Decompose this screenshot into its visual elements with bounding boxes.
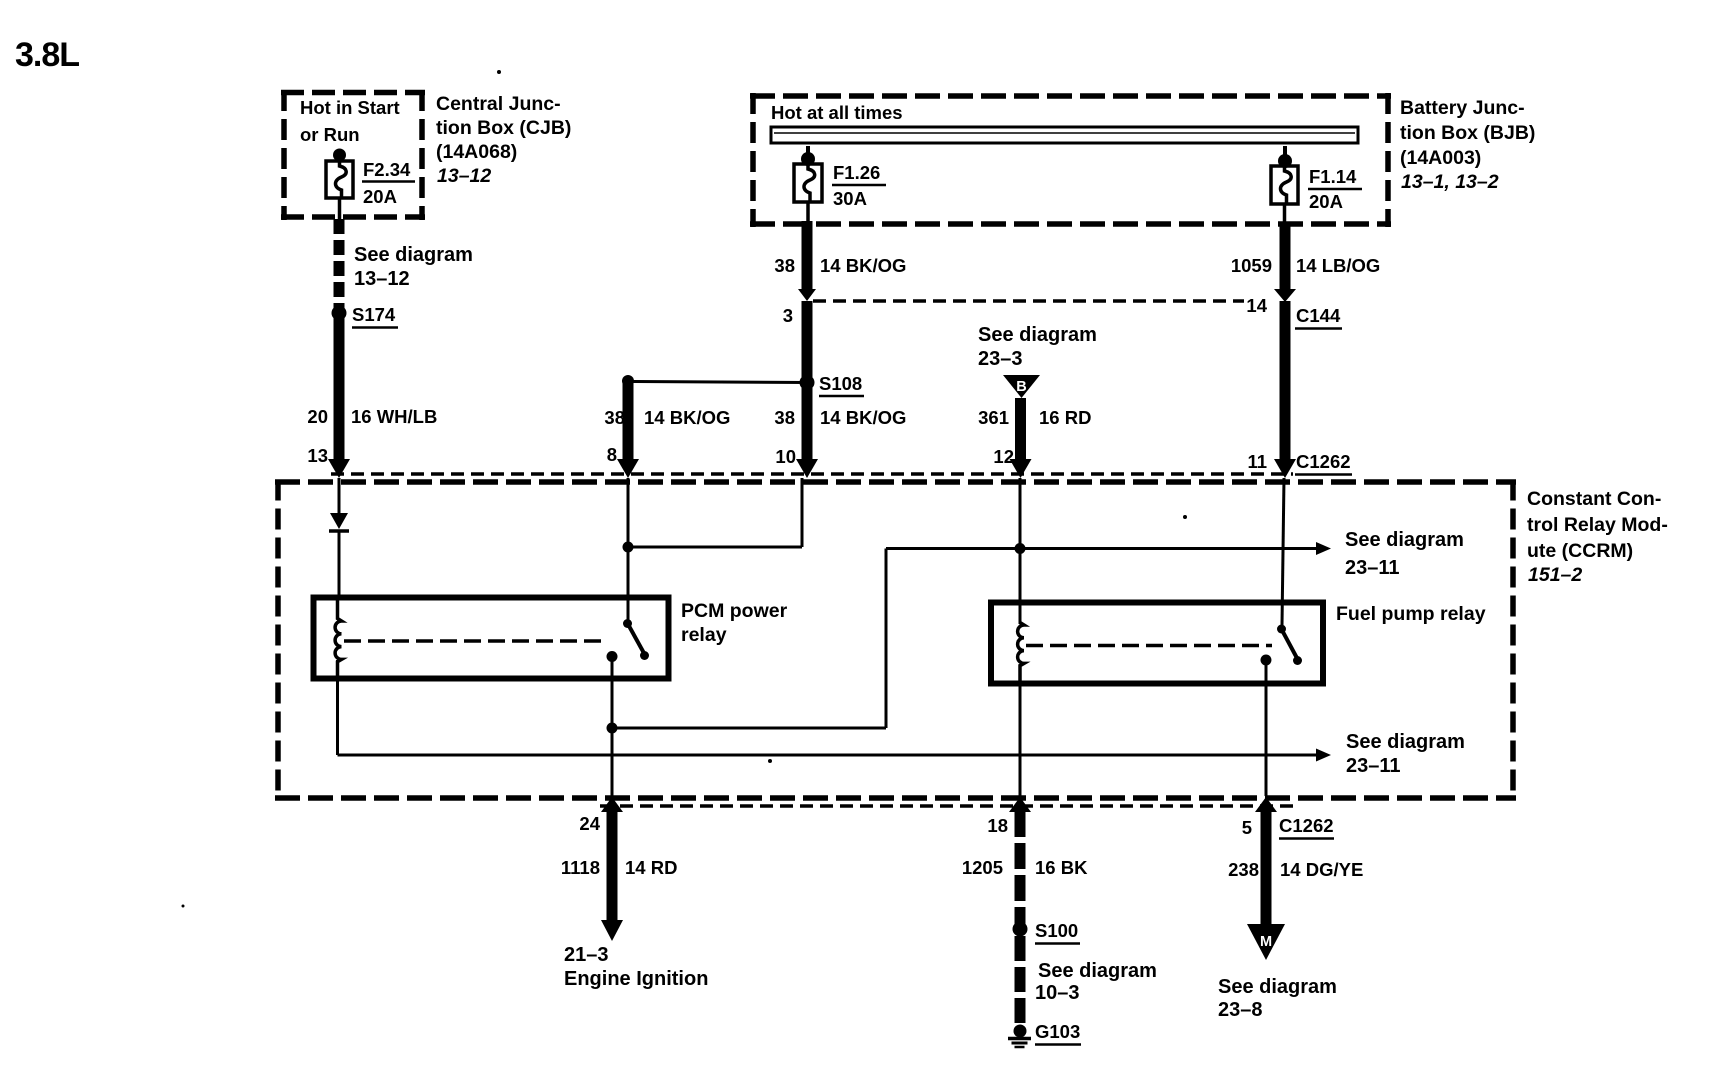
- svg-text:238: 238: [1228, 859, 1259, 880]
- svg-text:14 BK/OG: 14 BK/OG: [820, 255, 906, 276]
- svg-text:23–11: 23–11: [1346, 755, 1401, 777]
- svg-text:23–8: 23–8: [1218, 999, 1263, 1021]
- wire: 238 14 DG/YE (thick): [1261, 811, 1272, 924]
- fuse F1.14 20A: [1271, 146, 1298, 222]
- svg-text:11: 11: [1247, 451, 1267, 472]
- svg-text:13–12: 13–12: [354, 268, 410, 290]
- PCM relay internal dashed link: [344, 639, 605, 643]
- svg-text:C1262: C1262: [1296, 451, 1351, 472]
- svg-text:Battery Junc-: Battery Junc-: [1400, 97, 1525, 119]
- svg-text:1118: 1118: [561, 857, 600, 878]
- connector M (see diagram 23-8): [1247, 924, 1285, 960]
- wire: PCM coil ground + see diagram 23-11 arrow (lower): [336, 660, 339, 755]
- wire: pin 8 into CCRM to switch: [627, 478, 630, 620]
- svg-text:23–11: 23–11: [1345, 557, 1400, 579]
- wire: S174 to CCRM pin 13 (20 16 WH/LB, thick): [334, 313, 345, 460]
- CCRM component label: [1527, 488, 1668, 586]
- svg-text:14 LB/OG: 14 LB/OG: [1296, 255, 1380, 276]
- svg-text:14 DG/YE: 14 DG/YE: [1280, 859, 1363, 880]
- svg-text:B: B: [1016, 379, 1026, 395]
- svg-text:16 BK: 16 BK: [1035, 857, 1088, 878]
- PCM power relay box: [314, 598, 669, 679]
- pin 24 output arrow: [601, 797, 623, 812]
- svg-text:See diagram: See diagram: [978, 324, 1097, 346]
- CJB box (Central Junction Box, dashed): [281, 90, 425, 220]
- CCRM box (Constant Control Relay Module, dashed): [275, 480, 1516, 801]
- svg-text:12: 12: [993, 446, 1014, 467]
- svg-text:10–3: 10–3: [1035, 982, 1080, 1004]
- connector C1262 top dashed line: [331, 472, 1293, 476]
- svg-text:20A: 20A: [1309, 191, 1343, 212]
- PCM relay coil: [335, 600, 341, 681]
- svg-text:13–12: 13–12: [437, 165, 491, 187]
- splice S100: [1013, 922, 1028, 937]
- svg-text:20A: 20A: [363, 186, 397, 207]
- wire: F1.14 down to C144 pin 14 (1059 14 LB/OG, thick): [1280, 222, 1291, 290]
- svg-text:1059: 1059: [1231, 255, 1272, 276]
- svg-text:14 BK/OG: 14 BK/OG: [820, 407, 906, 428]
- svg-text:Hot in Start: Hot in Start: [300, 97, 400, 118]
- pin 5 output arrow: [1255, 797, 1277, 812]
- svg-text:F1.26: F1.26: [833, 162, 880, 183]
- svg-text:24: 24: [579, 813, 600, 834]
- svg-text:See diagram: See diagram: [354, 244, 473, 266]
- svg-text:(14A068): (14A068): [436, 141, 517, 163]
- svg-text:23–3: 23–3: [978, 348, 1023, 370]
- svg-text:20: 20: [307, 406, 328, 427]
- svg-text:14: 14: [1246, 295, 1267, 316]
- diode: [330, 513, 348, 529]
- wire: pin 13 into CCRM: [338, 478, 341, 513]
- wire: branch down to CCRM pin 8 (38 14 BK/OG, thick): [623, 381, 634, 460]
- svg-text:(14A003): (14A003): [1400, 147, 1481, 169]
- svg-text:5: 5: [1242, 817, 1252, 838]
- fuse F2.34 label: [363, 159, 411, 207]
- svg-text:361: 361: [978, 407, 1009, 428]
- see diagram 23-11 arrow (upper): [886, 547, 1317, 550]
- wire: C144 to CCRM pin 11 C1262 (thick): [1280, 301, 1291, 460]
- svg-text:G103: G103: [1035, 1021, 1080, 1042]
- svg-text:tion Box (CJB): tion Box (CJB): [436, 117, 571, 139]
- svg-text:F1.14: F1.14: [1309, 166, 1357, 187]
- splice S108: [800, 375, 815, 390]
- svg-text:151–2: 151–2: [1528, 564, 1582, 586]
- svg-text:See diagram: See diagram: [1218, 976, 1337, 998]
- connector C1262 bottom dashed line: [600, 804, 1295, 808]
- svg-text:18: 18: [987, 815, 1008, 836]
- title 3.8L: [15, 36, 79, 74]
- wire: pin 12 into CCRM to fuel pump relay coil: [1019, 478, 1022, 624]
- svg-text:38: 38: [774, 255, 795, 276]
- svg-text:21–3: 21–3: [564, 944, 609, 966]
- svg-text:14 RD: 14 RD: [625, 857, 677, 878]
- svg-text:See diagram: See diagram: [1038, 960, 1157, 982]
- CJB component label: [436, 93, 571, 187]
- svg-text:16 WH/LB: 16 WH/LB: [351, 406, 437, 427]
- Fuel pump relay box: [991, 603, 1323, 684]
- svg-text:See diagram: See diagram: [1345, 529, 1464, 551]
- FP relay internal dashed link: [1026, 644, 1272, 648]
- svg-text:Engine Ignition: Engine Ignition: [564, 968, 708, 990]
- splice S174: [332, 306, 347, 321]
- svg-text:S174: S174: [352, 304, 396, 325]
- BJB box (Battery Junction Box, dashed): [750, 93, 1391, 227]
- svg-text:relay: relay: [681, 624, 727, 646]
- svg-text:3.8L: 3.8L: [15, 36, 79, 74]
- wire: pin 11 into CCRM to switch: [1282, 478, 1284, 625]
- wire: F1.26 down to C144 (38 14 BK/OG, thick): [802, 221, 813, 290]
- CJB "Hot in Start or Run" label: [300, 97, 400, 145]
- svg-text:13: 13: [307, 445, 328, 466]
- svg-text:16 RD: 16 RD: [1039, 407, 1091, 428]
- svg-text:or Run: or Run: [300, 124, 360, 145]
- FP relay switch: [1277, 625, 1286, 634]
- bus bar Hot at all times: [771, 102, 903, 123]
- fuse F2.34 20A: [326, 149, 353, 220]
- svg-text:F2.34: F2.34: [363, 159, 411, 180]
- svg-text:10: 10: [775, 446, 796, 467]
- junction to see-diagram 23-11 (upper): [607, 723, 618, 734]
- svg-text:Constant Con-: Constant Con-: [1527, 488, 1661, 510]
- svg-text:30A: 30A: [833, 188, 867, 209]
- wire: FP coil down to pin 18: [1019, 664, 1022, 796]
- svg-text:tion Box (BJB): tion Box (BJB): [1400, 122, 1535, 144]
- connector C144 dashed line: [813, 299, 1244, 303]
- wire: 1118 14 RD (thick): [607, 811, 618, 921]
- wire: CJB fuse down to S174 (thick dashed): [334, 219, 345, 309]
- wire: S100 to G103 (thick dashed): [1015, 936, 1026, 1028]
- label See diagram 13-12: [354, 244, 473, 290]
- wire: PCM relay output down to pin 24: [611, 657, 614, 797]
- wire: B to CCRM pin 12 (361 16 RD, thick): [1015, 398, 1026, 460]
- svg-text:PCM power: PCM power: [681, 600, 788, 622]
- svg-text:8: 8: [607, 444, 617, 465]
- svg-text:M: M: [1260, 934, 1272, 950]
- svg-text:Fuel pump relay: Fuel pump relay: [1336, 603, 1486, 625]
- wire: 1205 16 BK (thick dashed): [1015, 811, 1026, 925]
- wire: S108 branch left: [628, 382, 807, 383]
- pin 18 output arrow: [1009, 797, 1031, 812]
- PCM relay switch: [623, 619, 632, 628]
- Fuel pump relay coil: [1018, 623, 1024, 684]
- svg-text:13–1, 13–2: 13–1, 13–2: [1401, 171, 1499, 193]
- connector B (see diagram 23-3): [978, 324, 1097, 370]
- svg-text:Hot at all times: Hot at all times: [771, 102, 903, 123]
- svg-text:14 BK/OG: 14 BK/OG: [644, 407, 730, 428]
- svg-text:38: 38: [774, 407, 795, 428]
- ground G103: [1014, 1025, 1027, 1038]
- svg-text:ute (CCRM): ute (CCRM): [1527, 540, 1633, 562]
- svg-text:S108: S108: [819, 373, 862, 394]
- wire: pin 10 into CCRM joining pin 8: [801, 478, 804, 547]
- svg-text:3: 3: [783, 305, 793, 326]
- BJB component label: [1400, 97, 1535, 193]
- svg-text:1205: 1205: [962, 857, 1003, 878]
- svg-text:38: 38: [604, 407, 625, 428]
- svg-text:trol Relay Mod-: trol Relay Mod-: [1527, 514, 1668, 536]
- svg-text:C144: C144: [1296, 305, 1341, 326]
- wire: C144 pin 3 down to S108 and pin 10 (thick): [802, 301, 813, 460]
- svg-text:C1262: C1262: [1279, 815, 1334, 836]
- svg-text:S100: S100: [1035, 920, 1078, 941]
- svg-text:Central Junc-: Central Junc-: [436, 93, 561, 115]
- fuse F1.26 30A: [794, 146, 822, 221]
- wire: FP relay output down to pin 5: [1265, 660, 1268, 796]
- svg-text:See diagram: See diagram: [1346, 731, 1465, 753]
- scan specks: [497, 70, 501, 74]
